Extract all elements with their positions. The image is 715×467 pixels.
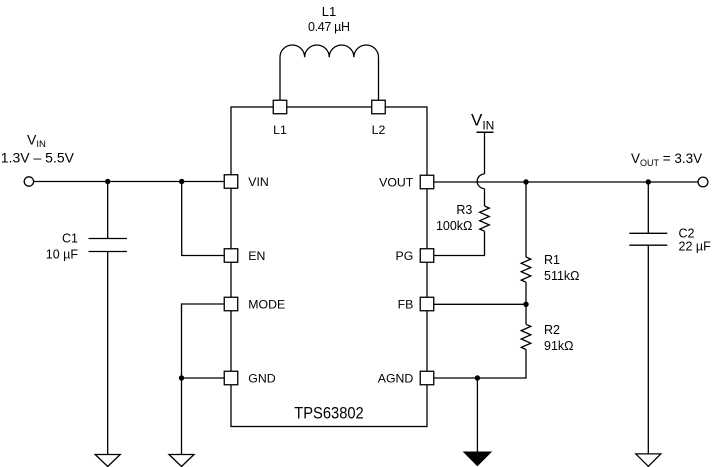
pin VIN xyxy=(224,175,238,189)
node VOUT-R1 junction xyxy=(523,179,528,184)
pin MODE xyxy=(224,297,238,311)
node AGND junction xyxy=(475,375,480,380)
svg-text:VIN: VIN xyxy=(27,132,46,150)
node VOUT-C2 junction xyxy=(646,179,651,184)
resistor R3 xyxy=(480,206,490,231)
svg-text:R2: R2 xyxy=(544,323,560,337)
node GND-MODE junction xyxy=(179,375,184,380)
resistor R2 xyxy=(521,324,531,349)
svg-text:PG: PG xyxy=(396,249,414,263)
wire GND xyxy=(182,378,225,455)
svg-text:FB: FB xyxy=(398,297,414,311)
wire crossover hop xyxy=(477,174,484,189)
svg-text:22 µF: 22 µF xyxy=(679,239,712,253)
svg-text:VOUT = 3.3V: VOUT = 3.3V xyxy=(631,151,702,168)
wire VOUT to R1 xyxy=(525,182,527,257)
wire C2 bottom xyxy=(647,245,649,454)
pin GND xyxy=(224,371,238,385)
capacitor C1 xyxy=(89,239,127,252)
wire FB xyxy=(434,303,526,305)
wire VIN rail xyxy=(34,181,225,183)
node VIN-C1 junction xyxy=(105,179,110,184)
wire EN xyxy=(182,182,225,256)
wire VIN flag drop xyxy=(484,132,486,174)
svg-text:511kΩ: 511kΩ xyxy=(544,269,580,283)
svg-text:AGND: AGND xyxy=(378,371,414,385)
wire R1 to FB node xyxy=(525,282,527,304)
wire C1 bottom xyxy=(107,252,109,455)
wire L2 right stub xyxy=(378,57,380,100)
svg-text:VOUT: VOUT xyxy=(379,175,414,189)
svg-text:91kΩ: 91kΩ xyxy=(544,339,574,353)
svg-text:TPS63802: TPS63802 xyxy=(294,405,364,423)
wire R3 to PG xyxy=(434,231,485,255)
svg-text:EN: EN xyxy=(248,249,265,263)
wire AGND drop xyxy=(476,378,478,452)
pin EN xyxy=(224,249,238,263)
power flag VIN bar xyxy=(477,131,494,133)
svg-text:L1: L1 xyxy=(273,123,287,137)
wire FB node to R2 xyxy=(525,304,527,324)
output terminal xyxy=(698,177,708,187)
svg-text:R1: R1 xyxy=(544,253,560,267)
pin FB xyxy=(420,297,434,311)
node FB junction xyxy=(523,302,528,307)
ground (C2) xyxy=(636,454,661,466)
svg-text:VIN: VIN xyxy=(248,175,268,189)
svg-text:VIN: VIN xyxy=(471,110,494,132)
svg-text:MODE: MODE xyxy=(248,297,285,311)
input terminal xyxy=(24,177,33,186)
resistor R1 xyxy=(521,257,531,282)
capacitor C2 xyxy=(629,233,667,245)
wire R2 to AGND rail xyxy=(434,350,526,379)
wire C1 top xyxy=(107,182,109,239)
svg-text:10 µF: 10 µF xyxy=(46,247,79,261)
pin VOUT xyxy=(420,175,434,189)
wire C2 top xyxy=(647,182,649,233)
pin L1 xyxy=(273,100,287,114)
wire VOUT rail xyxy=(434,181,698,183)
ground (C1) xyxy=(95,455,120,467)
svg-text:C1: C1 xyxy=(62,231,78,245)
svg-text:100kΩ: 100kΩ xyxy=(436,219,472,233)
svg-text:0.47 µH: 0.47 µH xyxy=(308,20,350,34)
inductor L1 xyxy=(280,45,379,57)
svg-text:R3: R3 xyxy=(456,203,472,217)
svg-text:C2: C2 xyxy=(679,227,695,241)
svg-text:1.3V – 5.5V: 1.3V – 5.5V xyxy=(1,149,75,165)
svg-text:L1: L1 xyxy=(322,4,336,19)
svg-text:L2: L2 xyxy=(372,123,386,137)
ground AGND (solid) xyxy=(464,452,490,465)
ground (GND pin) xyxy=(169,455,194,467)
pin PG xyxy=(420,249,434,263)
wire L1 left stub xyxy=(279,57,281,100)
IC U1 TPS63802 body xyxy=(231,107,427,427)
wire hop to R3 xyxy=(484,189,486,206)
svg-text:GND: GND xyxy=(248,371,275,385)
node VIN-EN junction xyxy=(179,179,184,184)
pin AGND xyxy=(420,371,434,385)
wire MODE xyxy=(182,304,225,378)
pin L2 xyxy=(372,100,386,114)
